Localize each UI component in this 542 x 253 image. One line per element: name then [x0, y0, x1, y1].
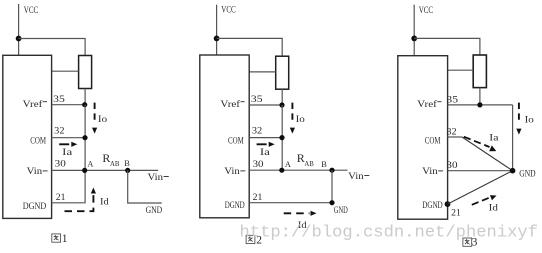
svg-text:32: 32 — [54, 126, 65, 136]
IC U2 fig2 — [200, 55, 249, 218]
caption fig3 — [463, 238, 472, 246]
junction dot pin 32 fig2 — [279, 135, 284, 140]
svg-text:21: 21 — [56, 192, 66, 202]
svg-text:Ia: Ia — [62, 147, 72, 157]
svg-text:35: 35 — [446, 95, 458, 105]
wire resistor bottom to pin 35 fig2 — [281, 89, 283, 105]
svg-text:AB: AB — [304, 161, 314, 168]
junction dot node A fig1 — [82, 168, 87, 173]
junction dot VCC node fig3 — [411, 36, 417, 42]
junction dot DGND pin fig3 — [445, 201, 451, 207]
svg-text:VCC: VCC — [221, 5, 235, 15]
svg-text:30: 30 — [55, 159, 67, 169]
svg-text:Vin: Vin — [224, 166, 240, 176]
caption fig1 — [52, 234, 61, 242]
svg-text:DGND: DGND — [422, 200, 443, 210]
pin 21 wire fig1 — [52, 202, 86, 204]
svg-text:Vref: Vref — [23, 99, 44, 109]
svg-text:1: 1 — [62, 233, 68, 245]
svg-text:21: 21 — [253, 192, 263, 202]
svg-text:COM: COM — [30, 136, 46, 146]
svg-text:B: B — [124, 159, 130, 168]
resistor R1 fig1 — [79, 56, 92, 89]
wire right side down to GND node fig3 — [512, 105, 514, 171]
svg-text:Ia: Ia — [489, 133, 498, 143]
svg-text:Id: Id — [489, 203, 499, 213]
pin 21 wire fig2 — [249, 202, 332, 204]
junction dot pin 35 fig1 — [82, 102, 87, 107]
pin 30 wire / node line A-B fig1 — [52, 169, 159, 171]
wire node B down to GND fig2 — [331, 170, 333, 203]
pin 30 wire to GND fig3 — [448, 170, 513, 172]
svg-text:GND: GND — [519, 169, 536, 179]
svg-text:30: 30 — [446, 160, 458, 170]
svg-text:32: 32 — [446, 127, 457, 137]
svg-text:http://blog.csdn.net/phenixyf: http://blog.csdn.net/phenixyf — [240, 223, 539, 242]
svg-text:Io: Io — [98, 114, 108, 124]
wire resistor bottom to pin 35 fig3 — [479, 88, 481, 105]
junction dot GND fig2 — [329, 200, 334, 205]
current arrow Io fig1 — [92, 103, 97, 134]
junction dot pin 35 fig2 — [279, 102, 284, 107]
bus wire pin35 to pin21 corner fig1 — [84, 105, 86, 203]
svg-text:Io: Io — [296, 114, 306, 124]
pin 35 wire fig3 — [448, 104, 513, 106]
junction dot node A fig2 — [279, 168, 284, 173]
IC U1 fig1 — [3, 55, 52, 218]
svg-text:COM: COM — [425, 136, 441, 146]
svg-text:32: 32 — [252, 126, 263, 136]
svg-text:21: 21 — [451, 207, 461, 217]
pin 32 wire fig2 — [249, 137, 282, 139]
current arrow Ia fig2 — [257, 142, 275, 147]
svg-text:VCC: VCC — [24, 5, 38, 15]
wire VCC lead fig2 — [216, 5, 218, 55]
svg-text:A: A — [285, 160, 291, 169]
wire DGND diagonal to GND fig3 — [448, 171, 513, 204]
junction dot pin 32 fig1 — [82, 135, 87, 140]
pin 35 wire fig1 — [52, 104, 86, 106]
wire resistor bottom to pin 35 fig1 — [84, 89, 86, 105]
svg-text:35: 35 — [251, 94, 263, 104]
junction dot node B fig1 — [125, 168, 130, 173]
junction dot VCC node fig1 — [16, 36, 22, 42]
junction dot pin 35 fig3 — [477, 102, 482, 107]
svg-text:Vin: Vin — [148, 172, 164, 182]
wire pin 32 diagonal to GND fig3 — [462, 137, 513, 171]
pin 30 wire / node line A-B fig2 — [249, 169, 347, 171]
pin 32 wire fig1 — [52, 137, 86, 139]
svg-text:Ia: Ia — [260, 147, 270, 157]
svg-text:35: 35 — [53, 94, 65, 104]
junction dot GND node fig3 — [510, 168, 516, 174]
wire VCC lead fig1 — [18, 4, 20, 55]
resistor R2 fig2 — [276, 56, 289, 89]
junction dot VCC node fig2 — [214, 36, 220, 42]
current arrow Id fig2 — [284, 211, 317, 216]
current arrow Ia fig3 — [464, 137, 497, 152]
wire IC to resistor left stub fig2 — [249, 71, 276, 73]
wire IC to resistor left stub fig1 — [52, 70, 79, 72]
svg-text:DGND: DGND — [225, 200, 245, 210]
svg-text:30: 30 — [253, 159, 264, 169]
svg-text:GND: GND — [146, 205, 163, 215]
svg-text:DGND: DGND — [23, 201, 47, 211]
wire node B to GND fig1 — [128, 170, 162, 203]
wire IC to resistor left stub fig3 — [448, 69, 474, 71]
current arrow Id fig3 — [472, 195, 497, 205]
svg-text:VCC: VCC — [419, 5, 433, 15]
current arrow Id fig1 — [65, 188, 97, 212]
svg-text:Vref: Vref — [417, 99, 438, 109]
wire VCC node to resistor top fig1 — [19, 39, 86, 57]
current arrow Io fig2 — [290, 103, 295, 134]
bus wire pin35 to node A fig2 — [281, 105, 283, 170]
wire VCC node to resistor top fig2 — [217, 38, 283, 56]
resistor R3 fig3 — [473, 55, 486, 88]
svg-text:GND: GND — [334, 205, 348, 215]
svg-text:B: B — [321, 160, 327, 169]
svg-text:Vref: Vref — [220, 99, 241, 109]
current arrow Io fig3 — [516, 103, 521, 135]
IC U3 fig3 — [398, 56, 448, 220]
svg-text:Vin: Vin — [348, 171, 364, 181]
junction dot node B fig2 — [329, 168, 334, 173]
pin 32 stub wire fig3 — [448, 136, 462, 138]
wire VCC lead fig3 — [413, 5, 415, 56]
svg-text:COM: COM — [228, 136, 244, 146]
current arrow Ia fig1 — [59, 142, 77, 147]
svg-text:A: A — [87, 159, 93, 168]
svg-text:AB: AB — [110, 161, 120, 168]
wire VCC node to resistor top fig3 — [414, 38, 480, 55]
caption fig2 — [246, 235, 255, 243]
svg-text:Vin: Vin — [422, 166, 438, 176]
svg-text:Vin: Vin — [27, 166, 43, 176]
pin 35 wire fig2 — [249, 104, 282, 106]
svg-text:Id: Id — [100, 197, 109, 207]
svg-text:Io: Io — [525, 115, 535, 125]
